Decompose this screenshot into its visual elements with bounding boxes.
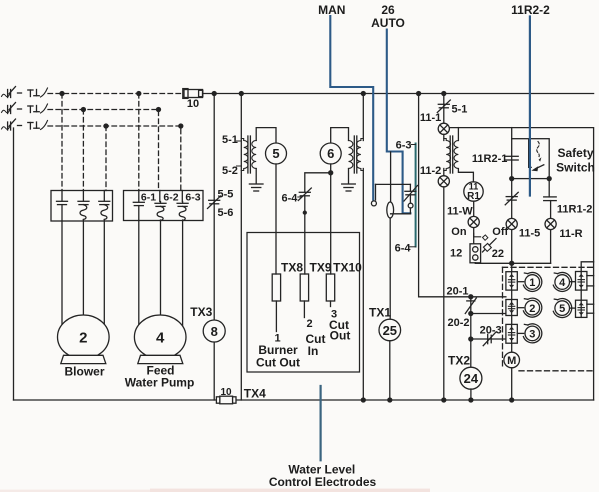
wire box2-box3 <box>511 316 513 325</box>
contact box 1 <box>506 272 517 290</box>
wire secondary bottom to ground <box>255 169 257 184</box>
svg-text:11-1: 11-1 <box>420 112 441 124</box>
svg-text:2: 2 <box>529 303 535 315</box>
svg-text:26: 26 <box>381 3 395 17</box>
svg-text:5-1: 5-1 <box>452 104 468 116</box>
wire R1 to lamp 11-W <box>473 201 475 216</box>
motor M <box>504 352 520 368</box>
MAN/AUTO selector switch cluster <box>371 152 417 319</box>
wire control column upper <box>443 94 445 124</box>
electrode TX8 <box>256 261 303 370</box>
wire 11-5 column <box>511 179 513 219</box>
svg-text:6-3: 6-3 <box>185 192 200 204</box>
contact 5-5/5-6 <box>208 189 234 219</box>
svg-text:22: 22 <box>492 248 504 260</box>
svg-text:Switch: Switch <box>556 161 595 175</box>
svg-text:6-4: 6-4 <box>395 243 412 255</box>
node small dot on 6-4 line <box>303 211 306 214</box>
wire dashed drop to blower contactor a <box>61 94 63 191</box>
node 20-3 junction <box>469 337 473 341</box>
phase L3 symbols <box>2 119 48 130</box>
svg-text:Safety: Safety <box>557 146 593 160</box>
coil circle 1 <box>517 272 542 291</box>
svg-text:Blower: Blower <box>64 365 104 379</box>
secondary coil <box>454 141 458 169</box>
wire 20-3 rung <box>471 338 506 340</box>
overload element 6-3 <box>177 202 188 221</box>
phase L2 symbols <box>2 103 48 114</box>
node L1-drop a <box>60 92 64 96</box>
svg-text:10: 10 <box>187 98 199 110</box>
fuse 10 (top) <box>183 89 203 110</box>
wire left vertical feeder <box>13 128 15 400</box>
node bus-443 <box>442 92 446 96</box>
svg-text:TX10: TX10 <box>333 261 362 275</box>
wire box1-box2 <box>511 290 513 299</box>
relay coil circle 6 <box>320 143 341 164</box>
svg-text:11-R: 11-R <box>559 228 582 240</box>
svg-text:TX2: TX2 <box>448 354 470 368</box>
node 20-2 junction <box>469 312 473 316</box>
lamp 11-5 <box>506 218 540 239</box>
dashed contactor group box <box>503 267 594 371</box>
node L2-drop b <box>81 108 85 112</box>
svg-text:25: 25 <box>383 323 397 338</box>
lamp 11-1 <box>438 123 449 134</box>
secondary coil <box>252 141 256 169</box>
wire secondary bottom to R1 <box>458 169 473 182</box>
wire horizontal A <box>475 262 550 265</box>
node bus TX1 <box>388 398 392 402</box>
wire 11-5 column stub from top rail <box>511 128 513 139</box>
wire dashed phase row L2 <box>48 110 159 191</box>
water level control electrodes box <box>247 233 360 373</box>
water level electrodes pointer line <box>320 386 322 460</box>
overload element b <box>78 191 89 222</box>
svg-text:5: 5 <box>272 146 279 161</box>
svg-text:Out: Out <box>330 329 351 343</box>
wire secondary top to circle 6 <box>331 128 349 143</box>
transformer TX1 circle 25 <box>369 306 401 401</box>
svg-text:6-2: 6-2 <box>163 192 178 204</box>
node bus-443 bottom <box>442 398 446 402</box>
transformer TX3 circle 8 <box>190 305 225 342</box>
overload element 6-1 <box>133 191 144 221</box>
wire dashed drop to blower contactor b <box>82 110 84 191</box>
svg-text:AUTO: AUTO <box>371 16 405 30</box>
overload element a <box>57 191 68 222</box>
svg-text:11-W: 11-W <box>447 205 473 217</box>
svg-text:5-5: 5-5 <box>218 189 234 201</box>
bottom link <box>391 213 411 215</box>
contact 20-3 <box>483 332 496 345</box>
ground <box>342 184 356 191</box>
svg-text:3: 3 <box>529 329 535 341</box>
svg-text:Off: Off <box>492 226 508 238</box>
node bus-363 top <box>361 92 365 96</box>
scan artifact pink smear bottom <box>150 489 430 492</box>
svg-text:TX1: TX1 <box>369 306 391 320</box>
contact electrode symbol on 11-5 column <box>505 192 518 205</box>
primary coil <box>241 139 248 171</box>
node L1-drop pump <box>137 92 141 96</box>
svg-text:TX3: TX3 <box>190 305 212 319</box>
on/off switch <box>451 226 508 252</box>
svg-text:5: 5 <box>559 303 565 315</box>
wire branch to 6-4 electrode line <box>305 173 331 192</box>
node L3-corner pump <box>179 124 183 128</box>
safety switch actuator (dashed) <box>529 139 544 171</box>
relay coil circle 5 <box>266 143 287 164</box>
overload element 6-2 <box>155 202 166 221</box>
wire secondary top up <box>457 128 459 141</box>
wire M to bus <box>511 368 513 400</box>
svg-text:Control Electrodes: Control Electrodes <box>269 475 377 489</box>
aux vertical <box>390 152 392 203</box>
secondary coil <box>349 141 353 169</box>
node bus-418 <box>417 92 421 96</box>
wire dashed phase row L1 <box>48 93 184 95</box>
contact 20-1 <box>465 297 476 314</box>
svg-text:20-3: 20-3 <box>480 324 502 336</box>
rail <box>376 183 411 185</box>
svg-text:12: 12 <box>450 248 462 260</box>
node bus-M <box>510 398 514 402</box>
contact box 3 <box>506 324 517 343</box>
wire pump motor leads <box>138 221 140 330</box>
svg-text:2: 2 <box>79 330 87 347</box>
capacitor 11R2-1 <box>472 153 518 165</box>
wire bottom bus <box>14 399 594 401</box>
MAN selector label and wire <box>318 3 373 200</box>
svg-text:6-3: 6-3 <box>396 140 412 152</box>
svg-text:4: 4 <box>559 277 566 289</box>
svg-text:R1: R1 <box>467 191 480 202</box>
contact 6-4 <box>282 188 312 205</box>
contact box right 2 <box>576 300 594 317</box>
svg-text:11: 11 <box>469 182 479 192</box>
stub to MAN terminal <box>375 184 377 200</box>
resistor R1 <box>464 182 483 203</box>
svg-text:5-1: 5-1 <box>222 134 238 146</box>
contact box right 1 <box>576 272 594 291</box>
node A junction <box>510 261 514 265</box>
ground <box>249 184 263 191</box>
core <box>449 136 451 173</box>
svg-text:11R2-2: 11R2-2 <box>511 3 550 17</box>
transformer T5 (circle 5) <box>222 128 276 191</box>
node bus-214 <box>212 92 216 96</box>
node 20-1 junction <box>469 295 473 299</box>
wire column transformer5 x=241 <box>240 94 242 401</box>
wire lamp to transformer <box>443 134 445 140</box>
terminal block 12/22 <box>450 244 504 263</box>
svg-text:4: 4 <box>156 330 165 347</box>
svg-text:6: 6 <box>327 146 334 161</box>
lamp 11-W <box>468 216 479 227</box>
annotation 11R2-2 blue line <box>511 3 550 196</box>
wire box3 to motor M <box>511 343 513 352</box>
node bus TX2 <box>469 398 473 402</box>
svg-text:11R2-1: 11R2-1 <box>472 153 507 165</box>
wire 11-5 lamp down to contact box 1 <box>511 230 513 272</box>
wire secondary top to circle 5 <box>256 128 276 143</box>
motor 4 feed water pump <box>125 315 195 390</box>
svg-text:M: M <box>507 355 516 367</box>
svg-text:8: 8 <box>211 324 218 339</box>
core <box>353 136 355 173</box>
node L3-drop c <box>104 124 108 128</box>
capacitor 11R1-2 <box>544 179 593 219</box>
electrode TX10 <box>326 261 362 343</box>
MAN terminal <box>371 201 376 206</box>
transformer TX2 circle 24 <box>448 354 482 401</box>
wire 6-4 line down to TX9 electrode <box>304 196 306 274</box>
wire top bus <box>203 93 594 95</box>
svg-text:On: On <box>451 226 467 238</box>
svg-text:Water Pump: Water Pump <box>125 376 195 390</box>
node safety box bottom left <box>510 177 514 181</box>
svg-text:11R1-2: 11R1-2 <box>557 204 592 216</box>
svg-text:24: 24 <box>464 371 479 386</box>
core <box>247 136 249 173</box>
fuse 10 (bottom) TX4 <box>216 387 266 404</box>
wire 20 ladder feeder <box>419 94 506 297</box>
lamp 11-2 <box>438 176 449 187</box>
overload element c <box>99 191 110 222</box>
svg-text:TX8: TX8 <box>281 261 303 275</box>
electrode TX9 <box>300 261 332 359</box>
contactor/overload box feed pump 6-1 6-2 6-3 <box>124 191 204 221</box>
control transformer 11 <box>444 128 474 182</box>
svg-text:TX9: TX9 <box>309 261 331 275</box>
wire 6-3/6-4 teal link <box>415 144 417 247</box>
svg-text:10: 10 <box>220 387 232 398</box>
phase L1 symbols <box>2 87 48 98</box>
blade <box>474 233 481 237</box>
svg-text:5-6: 5-6 <box>218 207 234 219</box>
wire blower motor leads <box>61 221 63 329</box>
svg-text:11-5: 11-5 <box>519 228 540 240</box>
transformer T6 (circle 6) <box>331 128 364 191</box>
contact 5-1 (right) <box>437 100 467 116</box>
wire down to TX1 <box>389 218 391 319</box>
svg-text:5-2: 5-2 <box>222 165 238 177</box>
node L2-corner pump <box>157 108 161 112</box>
svg-text:11-2: 11-2 <box>420 165 441 177</box>
svg-text:TX4: TX4 <box>244 387 266 401</box>
wire ladder down <box>470 314 472 369</box>
wire column TX3 x=214 <box>213 94 215 401</box>
wire circle6 down to TX10 electrode <box>330 164 332 274</box>
wire secondary bottom to ground <box>348 169 350 184</box>
wire dashed drop to pump contactor a <box>138 94 140 191</box>
coil circle 5 (right) <box>553 299 575 318</box>
wire dashed drop to blower contactor c <box>105 126 107 191</box>
svg-text:6-4: 6-4 <box>282 193 299 205</box>
wire column transformer6 primary x=363 to bottom bus <box>362 94 364 141</box>
svg-text:In: In <box>308 344 319 358</box>
node safety box bottom right <box>547 177 551 181</box>
motor 2 blower <box>58 315 110 379</box>
primary coil <box>356 139 363 171</box>
wire control column lower to bus <box>443 169 445 176</box>
coil circle 4 <box>553 272 575 291</box>
wire 20-2 rung <box>471 313 506 315</box>
svg-text:20-1: 20-1 <box>446 285 468 297</box>
wire right box1-box2 <box>580 290 582 300</box>
contactor/overload box blower <box>51 191 113 222</box>
safety switch box <box>512 139 550 179</box>
svg-text:1: 1 <box>529 277 535 289</box>
lamp 11-R <box>545 218 583 239</box>
three-phase supply symbols L1 L2 L3 <box>2 87 48 131</box>
svg-text:Cut Out: Cut Out <box>256 356 300 370</box>
primary coil <box>444 139 451 171</box>
coil circle 2 <box>517 298 542 317</box>
svg-text:20-2: 20-2 <box>447 317 469 329</box>
switch contact with slash <box>404 184 418 213</box>
wire 11-R lamp down to horizontal A <box>550 230 552 264</box>
wire dashed phase row L3 <box>48 126 181 191</box>
fuse cartridge <box>387 202 394 218</box>
node bus-363 bottom <box>361 398 365 402</box>
wire right box top feed <box>581 262 593 272</box>
wire top-right rail and right border <box>449 128 593 400</box>
svg-text:2: 2 <box>306 318 312 330</box>
node bus-240 <box>239 92 243 96</box>
svg-text:MAN: MAN <box>318 3 345 17</box>
contact box 2 <box>506 300 517 316</box>
coil circle 3 <box>517 324 542 343</box>
wire circle5 down to TX8 electrode <box>275 164 277 274</box>
node junction 6 branch <box>329 171 333 175</box>
AUTO 26 label and wire <box>371 3 410 213</box>
